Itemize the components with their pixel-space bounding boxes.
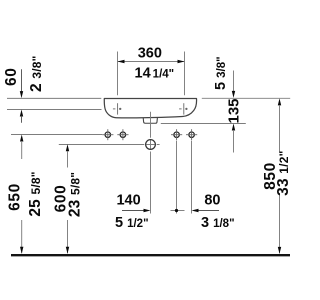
135 dim right xyxy=(213,56,242,152)
svg-text:5 1/2": 5 1/2" xyxy=(115,215,149,231)
mounting hole 1 xyxy=(102,129,113,140)
svg-text:650: 650 xyxy=(6,183,23,211)
rim level left ext xyxy=(7,97,101,99)
outlet box xyxy=(143,118,157,124)
svg-text:33 1/2": 33 1/2" xyxy=(275,151,292,196)
basin outline xyxy=(104,99,196,118)
600 level horizontal line + drain crosshair xyxy=(59,144,160,146)
floor line xyxy=(11,254,290,256)
fixing cross right xyxy=(179,103,187,114)
svg-text:14 1/4": 14 1/4" xyxy=(135,66,175,82)
svg-text:5 3/8": 5 3/8" xyxy=(213,56,229,90)
rim level right ext xyxy=(202,97,290,99)
850 dim xyxy=(262,98,292,254)
fixing cross left xyxy=(113,103,121,114)
60 dim left xyxy=(3,55,45,122)
360 dim xyxy=(118,46,185,96)
140 / 80 dims bottom xyxy=(115,141,235,231)
svg-text:60: 60 xyxy=(3,68,20,86)
svg-text:23 5/8": 23 5/8" xyxy=(67,172,84,217)
600 dim xyxy=(52,144,83,253)
svg-text:80: 80 xyxy=(204,192,220,208)
svg-text:25 5/8": 25 5/8" xyxy=(27,171,44,216)
mounting hole 2 xyxy=(117,129,128,140)
650 dim xyxy=(6,135,43,254)
center vertical line xyxy=(150,112,152,214)
svg-text:360: 360 xyxy=(138,46,162,62)
mounting hole 4 xyxy=(186,129,197,140)
svg-text:135: 135 xyxy=(226,98,243,123)
drain circle xyxy=(146,140,156,150)
svg-text:3 1/8": 3 1/8" xyxy=(201,215,235,231)
svg-text:2 3/8": 2 3/8" xyxy=(28,55,45,92)
outlet level right ext (135 bottom) xyxy=(161,123,246,125)
cross level line (60 bottom) xyxy=(7,109,102,111)
650 level line xyxy=(11,134,102,136)
mounting hole 3 xyxy=(171,129,182,140)
svg-text:140: 140 xyxy=(116,192,140,208)
centerline gaps xyxy=(144,138,156,152)
